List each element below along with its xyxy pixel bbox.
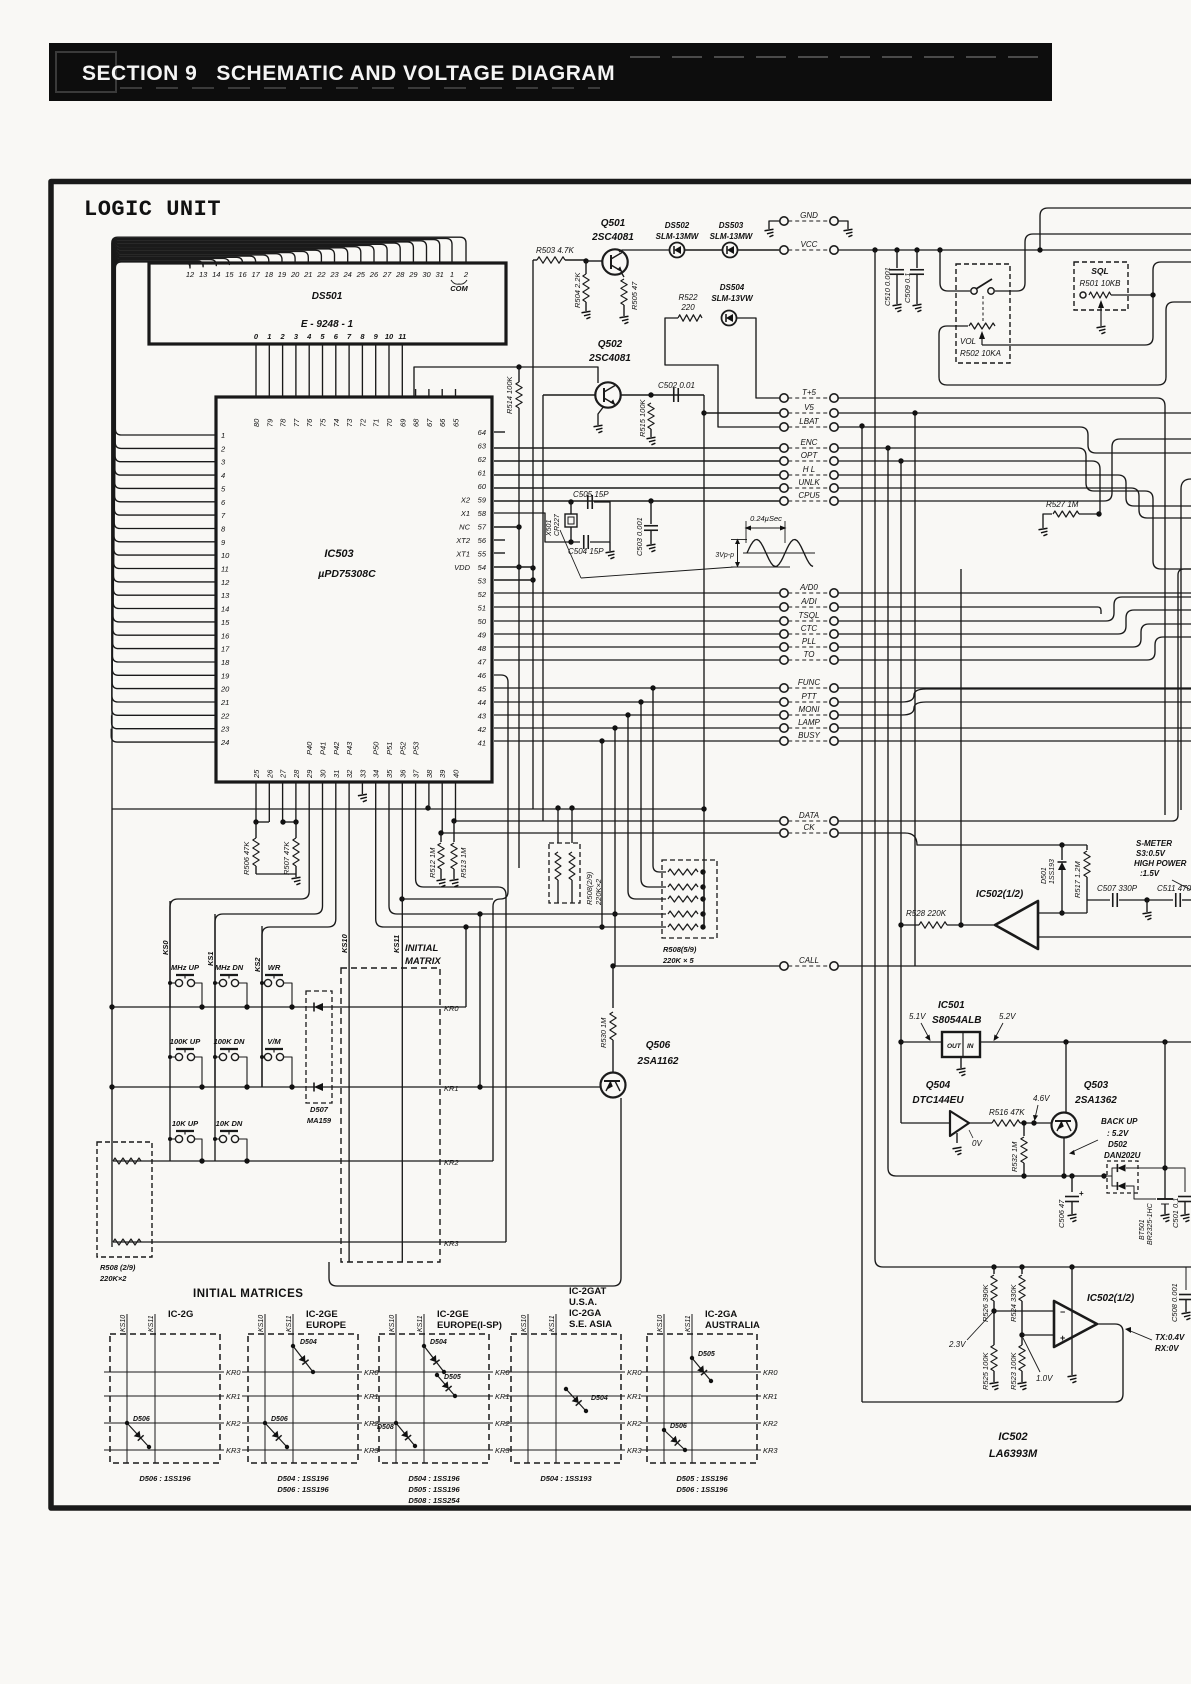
svg-text:11: 11 (221, 565, 229, 574)
connector T+5 (780, 394, 788, 402)
svg-text:25: 25 (252, 769, 261, 779)
svg-text:CR227: CR227 (554, 513, 561, 536)
svg-text:R513 1M: R513 1M (459, 847, 468, 878)
svg-text:R508(2/9): R508(2/9) (585, 871, 594, 905)
svg-text:KR1: KR1 (444, 1084, 459, 1093)
svg-text:69: 69 (398, 418, 407, 427)
section header banner (49, 43, 1052, 101)
pins 56 55 stubs (494, 539, 505, 541)
svg-text:11: 11 (398, 332, 406, 341)
svg-text:KS11: KS11 (286, 1315, 293, 1332)
svg-text:VCC: VCC (801, 240, 818, 249)
wire PLL row right (838, 624, 1191, 647)
SQL R501 dashed box (1074, 262, 1128, 310)
svg-text:20: 20 (290, 270, 300, 279)
svg-text:2SA1362: 2SA1362 (1074, 1095, 1117, 1106)
svg-text:32: 32 (345, 769, 354, 778)
svg-text:64: 64 (478, 428, 486, 437)
matrix IC-2GA AUSTRALIA (647, 1334, 757, 1463)
VCC rail right of connector (838, 249, 1191, 251)
svg-text:R502 10KA: R502 10KA (960, 349, 1001, 358)
wire pin37 to KR3 (416, 822, 506, 1242)
wire right edge feeds (1181, 479, 1191, 810)
resistor R524 330K (1021, 1267, 1023, 1274)
svg-text:VOL: VOL (960, 337, 976, 346)
wire TSQL row right (838, 597, 1191, 621)
svg-text:56: 56 (478, 536, 487, 545)
capacitor C509 0.1 (916, 250, 918, 268)
svg-text:R524 330K: R524 330K (1009, 1283, 1018, 1322)
potentiometer R501 (1080, 292, 1086, 298)
capacitor C510 0.001 (896, 250, 898, 268)
svg-text:CPU5: CPU5 (798, 491, 820, 500)
wire CK row to comparator (838, 833, 1087, 845)
DATA rail (453, 820, 780, 822)
resistor R505 47 (621, 272, 624, 277)
svg-text:66: 66 (438, 418, 447, 427)
svg-text:R532 1M: R532 1M (1010, 1141, 1019, 1172)
wire pin68 to R514 and Q502 collector (414, 367, 598, 397)
svg-text:38: 38 (425, 769, 434, 778)
resistor R523 100K (1019, 1345, 1025, 1371)
svg-text:−: − (1060, 1307, 1065, 1317)
svg-text:16: 16 (238, 270, 247, 279)
svg-text:R525 100K: R525 100K (981, 1351, 990, 1390)
crystal X501 CR227 (568, 499, 573, 504)
IC503 bottom pin wires (361, 782, 363, 794)
svg-text:14: 14 (212, 270, 220, 279)
KS11 line from pin36 (401, 822, 403, 1262)
switch V/M (264, 1053, 271, 1060)
capacitor C501 0.1 (1165, 1168, 1185, 1192)
svg-text:1: 1 (221, 431, 225, 440)
svg-text:C504 15P: C504 15P (568, 547, 604, 556)
svg-text:D505: D505 (444, 1374, 461, 1381)
svg-text:10: 10 (221, 551, 230, 560)
svg-text:D506: D506 (670, 1423, 687, 1430)
svg-text:A/D0: A/D0 (799, 583, 818, 592)
resistor R512 1M (438, 830, 443, 835)
svg-text:42: 42 (478, 725, 487, 734)
svg-text:77: 77 (292, 418, 301, 427)
R508(5/9) resistor pack dashed box (662, 860, 717, 938)
ground C510 (893, 304, 902, 312)
matrix IC-2G (110, 1334, 220, 1463)
svg-text:U.S.A.: U.S.A. (569, 1297, 597, 1308)
wire Q501 collector to LEDs (619, 250, 669, 252)
svg-text:DTC144EU: DTC144EU (912, 1095, 964, 1106)
svg-text:67: 67 (425, 418, 434, 427)
svg-text:P53: P53 (412, 741, 421, 755)
diode pack D507 MA159 (306, 991, 332, 1103)
svg-text:D506 : 1SS196: D506 : 1SS196 (139, 1474, 191, 1483)
svg-text:KR2: KR2 (763, 1419, 778, 1428)
matrix IC-2GE EUROPE I-SP (379, 1334, 489, 1463)
ground R527 (1039, 528, 1048, 536)
power switch (940, 250, 970, 291)
svg-text:PTT: PTT (801, 692, 817, 701)
wire LAMP row right (838, 727, 1191, 729)
svg-text:HIGH POWER: HIGH POWER (1134, 859, 1187, 868)
svg-text:39: 39 (438, 769, 447, 778)
pin 64 stub (494, 431, 505, 433)
waveform annotation (581, 567, 734, 578)
svg-text:DS502: DS502 (665, 221, 690, 230)
svg-text:IC502(1/2): IC502(1/2) (976, 889, 1024, 900)
svg-text:22: 22 (220, 711, 230, 720)
resistor R506 47K (256, 821, 269, 823)
ground IC501 (960, 1057, 962, 1068)
svg-text:KR1: KR1 (226, 1392, 241, 1401)
wire DS504 to T+5 (737, 318, 780, 398)
svg-text:X1: X1 (460, 509, 470, 518)
wire H/L row right (838, 475, 1191, 506)
switch MHz DN (219, 979, 226, 986)
connector CPU5 (780, 497, 788, 505)
ground R504 (582, 311, 591, 319)
svg-text:22: 22 (316, 270, 326, 279)
svg-text:D508 : 1SS254: D508 : 1SS254 (408, 1496, 460, 1505)
wire Q502 base (543, 394, 595, 396)
svg-text:OUT: OUT (947, 1043, 962, 1050)
svg-text:WR: WR (268, 963, 281, 972)
svg-text:BT501: BT501 (1139, 1219, 1146, 1240)
svg-text:1: 1 (267, 332, 271, 341)
svg-text:R508 (2/9): R508 (2/9) (100, 1263, 136, 1272)
svg-text:CTC: CTC (801, 624, 818, 633)
svg-text:IC-2GA: IC-2GA (569, 1308, 601, 1319)
svg-text:LAMP: LAMP (798, 718, 820, 727)
svg-text:Q501: Q501 (601, 218, 626, 229)
svg-text:MHz DN: MHz DN (215, 963, 244, 972)
switch 100K DN (219, 1053, 226, 1060)
svg-text:IC502: IC502 (998, 1431, 1027, 1443)
keyboard pull-up rail (112, 808, 704, 810)
svg-text:59: 59 (478, 496, 487, 505)
ground R525 (990, 1382, 999, 1390)
svg-text:C505 15P: C505 15P (573, 490, 609, 499)
svg-text:23: 23 (329, 270, 339, 279)
capacitor C506 47 (1071, 1176, 1073, 1192)
ground pin33 (358, 794, 367, 802)
wire Q503 emitter to rail (1065, 1042, 1067, 1113)
waveform 3Vp-p arrow (737, 540, 739, 566)
R508(2/9) mid dashed box (549, 843, 580, 903)
svg-text:58: 58 (478, 509, 487, 518)
svg-text:KR3: KR3 (226, 1446, 241, 1455)
svg-text:R523 100K: R523 100K (1009, 1351, 1018, 1390)
battery BT501 BR2325-1HC (1164, 1041, 1166, 1199)
svg-text:D505: D505 (698, 1351, 715, 1358)
wire A/D1 row right (838, 607, 1101, 614)
wire CPU5 row right (838, 439, 1191, 501)
svg-text:78: 78 (279, 418, 288, 427)
connector V5 (780, 409, 788, 417)
R514 lower lead long vertical (518, 408, 520, 868)
pin 58 X1 crystal branch (494, 513, 580, 542)
svg-text:BUSY: BUSY (798, 731, 820, 740)
svg-text:220K × 5: 220K × 5 (662, 956, 694, 965)
svg-text:DAN202U: DAN202U (1104, 1151, 1141, 1160)
svg-text:V5: V5 (804, 403, 814, 412)
svg-text:LA6393M: LA6393M (989, 1448, 1038, 1460)
connector GND (780, 217, 788, 225)
svg-text:X2: X2 (460, 496, 471, 505)
svg-text:17: 17 (252, 270, 261, 279)
svg-text:S8054ALB: S8054ALB (932, 1015, 981, 1026)
svg-text:DS501: DS501 (312, 291, 343, 302)
wire CTC row right (838, 610, 1191, 634)
svg-text:37: 37 (412, 769, 421, 778)
svg-text:INITIAL: INITIAL (405, 943, 438, 954)
svg-text:D504 : 1SS193: D504 : 1SS193 (540, 1474, 592, 1483)
svg-text:0.24µSec: 0.24µSec (750, 514, 782, 523)
wire MONI row right (838, 702, 1191, 715)
resistor R525 100K (991, 1345, 997, 1371)
svg-text:ENC: ENC (801, 438, 818, 447)
IC503 left pins 23 24 wires (112, 715, 216, 728)
VOL R502 dashed box (956, 264, 1010, 363)
svg-text:C502 0.01: C502 0.01 (658, 381, 695, 390)
KR1 riser (479, 914, 481, 1087)
keyboard KS0 KS1 KS2 verticals (169, 901, 171, 1161)
svg-text:KR3: KR3 (444, 1239, 459, 1248)
svg-text:IC-2GE: IC-2GE (306, 1309, 338, 1320)
svg-text:D504 : 1SS196: D504 : 1SS196 (408, 1474, 460, 1483)
connector CALL (613, 965, 780, 967)
svg-text:KS0: KS0 (161, 940, 170, 955)
svg-text:IC-2GA: IC-2GA (705, 1309, 737, 1320)
svg-text:21: 21 (303, 270, 312, 279)
comparator output wires (1038, 912, 1062, 914)
svg-text:1.0V: 1.0V (1036, 1374, 1053, 1383)
svg-text:DATA: DATA (799, 811, 819, 820)
wire LBAT row right (838, 427, 1191, 453)
KR0 row (112, 1006, 466, 1008)
svg-text:29: 29 (305, 769, 314, 779)
svg-text:EUROPE: EUROPE (306, 1320, 346, 1331)
svg-text:52: 52 (478, 590, 487, 599)
R508(2/9) bottom-left dashed box (97, 1142, 152, 1257)
wire TO row right (838, 637, 1191, 660)
svg-text:46: 46 (478, 671, 487, 680)
svg-text:15: 15 (225, 270, 234, 279)
svg-text:KS11: KS11 (549, 1315, 556, 1332)
wire bundle DS501 top to IC503 left pins (115, 262, 216, 435)
INITIAL MATRIX dashed box (341, 968, 440, 1262)
wire Q506 collector down (329, 1098, 621, 1286)
wire base Q501 (586, 260, 602, 262)
svg-text:65: 65 (452, 418, 461, 427)
IC503 CPU box (216, 397, 492, 782)
svg-text:D502: D502 (1108, 1140, 1128, 1149)
svg-text:C501 0.1: C501 0.1 (1171, 1198, 1180, 1228)
wire UNLK row (494, 487, 780, 489)
wire ENC row (494, 447, 780, 449)
svg-text:54: 54 (478, 563, 486, 572)
ground C501 (1181, 1214, 1190, 1222)
svg-text:15: 15 (221, 618, 230, 627)
wire BUSY row right (838, 740, 1191, 742)
svg-text:Q504: Q504 (926, 1080, 951, 1091)
svg-text:45: 45 (478, 685, 487, 694)
svg-text:CALL: CALL (799, 956, 819, 965)
svg-text:MA159: MA159 (307, 1116, 332, 1125)
svg-text:KR0: KR0 (226, 1368, 241, 1377)
svg-text:KR1: KR1 (627, 1392, 642, 1401)
main frame border (51, 182, 1191, 1509)
svg-text:P52: P52 (398, 741, 407, 755)
svg-text:FUNC: FUNC (798, 678, 820, 687)
svg-text:72: 72 (358, 418, 367, 427)
svg-text:D507: D507 (310, 1105, 329, 1114)
wire UNLK row right (838, 488, 1191, 518)
ground Q504 (956, 1133, 958, 1143)
KS10 line from pin32 (348, 822, 350, 1262)
svg-text:10K UP: 10K UP (172, 1119, 199, 1128)
svg-text:D506: D506 (133, 1416, 150, 1423)
ground C506 (1068, 1214, 1077, 1222)
resistor R508d (113, 1239, 141, 1245)
mesh inner verticals (960, 569, 962, 925)
connector OPT (780, 457, 788, 465)
resistor R515 100K (621, 394, 704, 396)
lower comparator rail (875, 250, 1191, 1267)
svg-text:KS1: KS1 (206, 951, 215, 966)
svg-text:SLM-13VW: SLM-13VW (711, 294, 754, 303)
connector UNLK (780, 484, 788, 492)
svg-text:SLM-13MW: SLM-13MW (710, 232, 754, 241)
svg-text:R503 4.7K: R503 4.7K (536, 246, 574, 255)
ground R512 (437, 879, 446, 887)
main 5V rail (901, 1041, 942, 1043)
svg-text:31: 31 (332, 770, 341, 778)
svg-text:1: 1 (450, 270, 454, 279)
svg-text:P41: P41 (319, 742, 328, 755)
connector DATA (780, 817, 788, 825)
svg-text:SQL: SQL (1091, 266, 1108, 276)
resistor R517 1.2M (1086, 845, 1088, 850)
svg-text:10K DN: 10K DN (216, 1119, 243, 1128)
svg-text:27: 27 (382, 270, 392, 279)
svg-text:KR2: KR2 (444, 1158, 459, 1167)
svg-text:2SC4081: 2SC4081 (591, 232, 634, 243)
svg-text:30: 30 (319, 769, 328, 778)
svg-text:+: + (1060, 1333, 1065, 1343)
wire OPT row (494, 460, 780, 462)
svg-text:SECTION 9 SCHEMATIC AND VOLT: SECTION 9 SCHEMATIC AND VOLTAGE DIAGRAM (82, 62, 615, 85)
svg-text:KS10: KS10 (521, 1315, 528, 1332)
svg-text:KS10: KS10 (258, 1315, 265, 1332)
display DS501 box (149, 263, 506, 344)
svg-text:2: 2 (463, 270, 469, 279)
svg-text:IC502(1/2): IC502(1/2) (1087, 1293, 1135, 1304)
svg-text:R530 1M: R530 1M (599, 1017, 608, 1048)
wires DS501 bottom to IC503 top pins (255, 344, 257, 397)
ground crystal (609, 542, 611, 551)
svg-text:49: 49 (478, 631, 487, 640)
svg-text:16: 16 (221, 631, 230, 640)
svg-text:12: 12 (186, 270, 195, 279)
svg-text:TSQL: TSQL (799, 611, 820, 620)
left trunk wire COM line (111, 700, 113, 1247)
ground Q502 emitter (598, 406, 604, 425)
svg-text:28: 28 (292, 769, 301, 779)
svg-text:12: 12 (221, 578, 230, 587)
svg-text:R516 47K: R516 47K (989, 1108, 1025, 1117)
svg-text:C509 0.1: C509 0.1 (903, 273, 912, 303)
svg-text:R514 100K: R514 100K (505, 375, 514, 414)
svg-text:47: 47 (478, 658, 487, 667)
svg-text:S.E. ASIA: S.E. ASIA (569, 1319, 612, 1330)
svg-text:H L: H L (803, 465, 815, 474)
resistor R513 1M (451, 818, 456, 823)
ground op-amp (1068, 1375, 1077, 1383)
svg-text:51: 51 (478, 604, 486, 613)
svg-text:25: 25 (356, 270, 366, 279)
svg-text:IC501: IC501 (938, 1000, 965, 1011)
svg-text:+: + (1079, 1189, 1084, 1198)
keyboard scan columns from FUNC-BUSY rows (653, 688, 666, 872)
svg-text:60: 60 (478, 482, 487, 491)
ground C509 (913, 304, 922, 312)
KR1 row (112, 1086, 601, 1088)
svg-text:21: 21 (220, 698, 229, 707)
waveform 0.24uSec dimension (745, 521, 747, 543)
svg-text:KR2: KR2 (226, 1419, 241, 1428)
svg-text:KS10: KS10 (340, 933, 349, 953)
connector CK (780, 829, 788, 837)
wire to VCC connector (738, 249, 779, 251)
ground BT501 (1161, 1214, 1170, 1222)
wire pin29 to KS0 (170, 822, 309, 1007)
svg-text:MONI: MONI (799, 705, 821, 714)
connector LBAT (780, 423, 788, 431)
diode D501 1SS193 (1061, 845, 1063, 860)
CK rail (440, 832, 780, 834)
resistor R507 47K (283, 821, 296, 823)
svg-text:INITIAL MATRICES: INITIAL MATRICES (193, 1288, 303, 1300)
svg-text:P40: P40 (305, 741, 314, 755)
wire PTT row right (838, 689, 1191, 702)
svg-text:76: 76 (305, 418, 314, 427)
wire CALL row right (838, 965, 1191, 967)
svg-text:S3:0.5V: S3:0.5V (1136, 849, 1166, 858)
switch 10K DN (219, 1135, 226, 1142)
svg-text:R501 10KB: R501 10KB (1080, 279, 1122, 288)
ground R507 (292, 877, 301, 885)
KR2 row (113, 1160, 493, 1162)
svg-text:24: 24 (220, 738, 229, 747)
svg-text:KS11: KS11 (685, 1315, 692, 1332)
svg-text:IC-2GAT: IC-2GAT (569, 1286, 606, 1297)
connector ENC (780, 444, 788, 452)
ground R523 (1018, 1382, 1027, 1390)
svg-text:44: 44 (478, 698, 486, 707)
svg-text:2SA1162: 2SA1162 (637, 1056, 679, 1067)
capacitor C503 0.001 (648, 498, 653, 503)
IC503 top pins 68 65-67 stubs (415, 389, 417, 397)
svg-text:D504: D504 (300, 1339, 317, 1346)
svg-text:NC: NC (459, 523, 470, 532)
svg-text:KS11: KS11 (417, 1315, 424, 1332)
svg-text:EUROPE(I-SP): EUROPE(I-SP) (437, 1320, 502, 1331)
svg-text:43: 43 (478, 712, 487, 721)
svg-text:2SC4081: 2SC4081 (588, 353, 631, 364)
resistor R530 1M (610, 963, 615, 968)
svg-text:70: 70 (385, 418, 394, 427)
svg-text:R522: R522 (678, 293, 698, 302)
